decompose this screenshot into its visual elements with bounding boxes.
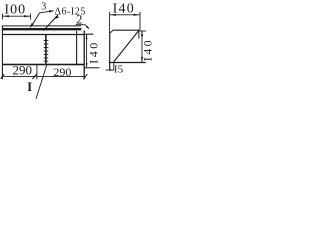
gusset right dim line 140 <box>141 31 143 62</box>
svg-text:290: 290 <box>53 65 71 79</box>
end dim arrows <box>86 35 88 40</box>
gusset top dim arrows <box>110 14 116 16</box>
dimension 100 line <box>2 15 30 17</box>
label 2 leader <box>85 25 89 29</box>
stiffener 1 web line <box>45 35 47 64</box>
end dimension line 140 (vertical) <box>86 35 88 68</box>
beam web end line <box>76 31 78 65</box>
beam flange bottom line <box>2 34 84 36</box>
gusset right dim top tick <box>140 30 146 32</box>
dim 15 arrow <box>110 69 114 71</box>
svg-text:I: I <box>27 79 32 94</box>
leader for label 3 rising segment <box>31 13 39 27</box>
dimension 100 right tick <box>30 14 32 20</box>
weld tick marks on stiffener <box>44 41 49 62</box>
svg-text:2: 2 <box>76 13 82 27</box>
gusset right dim arrows <box>141 31 143 37</box>
gusset right edge stub <box>138 30 140 38</box>
beam top flange top line <box>2 25 81 27</box>
weld leader line a <box>45 16 57 29</box>
arrow of leader 3 at flange <box>30 23 34 28</box>
label 1 leader <box>36 65 47 99</box>
gusset left edge <box>109 33 111 71</box>
svg-text:I00: I00 <box>4 3 26 18</box>
gusset top dim right extension <box>139 12 141 30</box>
weld leader arrowhead <box>55 14 59 19</box>
arrow of label 2 leader <box>86 26 90 30</box>
label 2 underline <box>76 24 85 26</box>
arrow of leader 3 tail <box>49 10 55 12</box>
gusset bottom edge <box>109 62 146 64</box>
oblique tick left <box>1 74 5 79</box>
weld leader line b <box>43 17 56 31</box>
gusset diagonal cut <box>114 30 139 62</box>
svg-text:I40: I40 <box>87 40 101 64</box>
oblique tick right <box>84 74 88 79</box>
bottom dimension line 290+290 <box>2 75 84 77</box>
arrow of dim 100 left <box>3 15 9 17</box>
bottom dimension middle extension <box>36 65 38 79</box>
gusset top dimension 140 line <box>110 14 140 16</box>
dim 15 line <box>106 69 114 71</box>
beam left edge / extension line <box>1 26 3 80</box>
column top line <box>84 67 99 69</box>
beam bottom edge <box>2 64 85 66</box>
svg-text:I5: I5 <box>114 63 124 75</box>
arrow of dim 100 right <box>24 15 30 17</box>
svg-text:3: 3 <box>41 2 46 13</box>
gusset top edge <box>113 29 139 31</box>
beam end plate edge <box>83 31 85 80</box>
oblique tick middle <box>33 74 37 79</box>
svg-text:290: 290 <box>13 63 33 78</box>
gusset chamfer <box>110 30 114 33</box>
leader for label 3 horizontal tail <box>40 11 54 13</box>
dimension 100 left tick <box>1 14 3 20</box>
gusset top dim left extension <box>109 12 111 33</box>
beam flange plate (blackened band) <box>2 28 81 30</box>
svg-text:I40: I40 <box>141 38 155 61</box>
dim 15 right extension <box>113 63 115 71</box>
svg-text:I40: I40 <box>113 2 135 17</box>
end dimension top extension tick <box>85 33 94 35</box>
